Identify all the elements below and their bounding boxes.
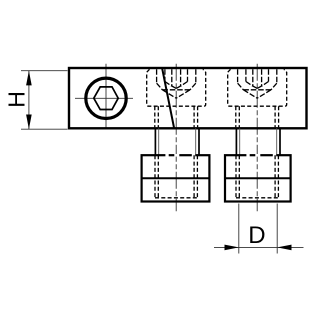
dimension H arrow up [26,71,32,86]
dimension H line [28,71,30,130]
T-nut block 1 [142,155,210,201]
stud thread hole 1 (visible) [155,128,199,155]
svg-text:D: D [248,222,265,249]
hidden screw shank hole 2 [236,106,279,127]
hidden hex socket hole 1 [165,69,188,88]
hidden counterbore hole 2 [228,69,287,106]
dimension D line [214,246,304,248]
svg-text:H: H [4,91,30,108]
dimension D extension lines [239,204,277,254]
hex socket (front view) [94,87,118,110]
socket screw head circle (front view) [86,78,126,118]
clamping bar body [69,68,307,128]
centerline hole 1 [175,64,177,212]
dimension H extension lines [21,71,68,130]
dimension H arrow down [26,115,32,130]
stud thread hole 2 (visible) [236,128,280,155]
hidden screw head hole 1 [157,69,196,98]
centerlines of front-view screw [75,64,133,129]
hidden hex socket hole 2 [246,69,269,88]
dimension D arrow right [277,245,291,251]
hidden counterbore hole 1 [147,69,206,106]
dimension D arrow left [225,245,239,251]
hidden screw shank hole 1 [155,106,198,127]
centerline hole 2 [256,64,258,212]
diagonal line across hole 1 [162,68,174,129]
T-nut block 2 [225,155,291,201]
hidden screw head hole 2 [238,69,277,98]
